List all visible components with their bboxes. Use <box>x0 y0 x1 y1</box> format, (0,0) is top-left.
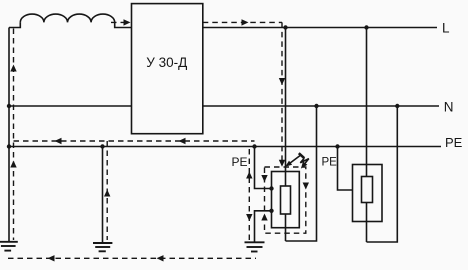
arrow down on SPD1 dashed box left edge <box>261 175 267 182</box>
wire L line right segment <box>203 27 437 29</box>
varistor R2 (SPD2) <box>362 177 373 203</box>
node PE middle ground junction <box>100 144 104 148</box>
wire N line left segment <box>9 105 132 107</box>
svg-text:PE: PE <box>232 155 248 169</box>
node N SPD2 junction <box>395 104 399 108</box>
arrow down into SPD1 dashed box <box>279 160 285 167</box>
wire left dashed return vertical <box>13 29 15 241</box>
svg-text:PE: PE <box>322 156 338 168</box>
SPD1 dashed boundary box <box>265 167 306 233</box>
arrow into U30-D (right) <box>124 19 131 25</box>
wire PE stub to SPD2 <box>338 147 353 191</box>
arrowheads <box>10 19 309 261</box>
node SPD1 upper terminal <box>269 186 273 190</box>
wire SPD1 drop from L <box>285 28 287 187</box>
wire dashed return horizontal <box>14 140 255 142</box>
inductor L1 <box>20 14 131 27</box>
wire dashed PE drop at SPD1 <box>248 149 250 242</box>
lightning bolt 1 shaft <box>287 155 301 165</box>
wire middle ground drop <box>102 147 104 243</box>
node L SPD1 junction <box>283 25 287 29</box>
wire PE stub to SPD1 upper terminal <box>255 147 272 189</box>
node PE SPD2 junction <box>335 144 339 148</box>
arrow up on SPD1 dashed box left edge <box>261 214 267 221</box>
svg-text:У 30-Д: У 30-Д <box>146 55 187 70</box>
lightning bolt 2 zigzag middle strokes <box>300 158 309 163</box>
wire SPD1 lower terminal to earth <box>255 211 272 242</box>
arrow up on left dashed (upper) <box>10 65 16 72</box>
svg-text:L: L <box>442 20 450 35</box>
arrow up on PE drop dashed <box>246 172 252 179</box>
arrow up on left dashed (lower) <box>10 161 16 168</box>
arrow down mid drop SPD1 <box>279 78 285 85</box>
SPD2 enclosure box <box>353 165 383 222</box>
arrow down on SPD1 dashed box right edge <box>303 183 309 190</box>
varistor R1 (SPD1) <box>281 186 291 214</box>
node SPD1 lower terminal <box>269 209 273 213</box>
svg-text:N: N <box>444 99 454 114</box>
arrow up on middle dashed <box>104 190 110 197</box>
wire SPD1 bottom link to N <box>286 106 317 241</box>
wire PE line <box>9 146 441 148</box>
wire SPD1 resistor bottom lead <box>285 214 287 241</box>
arrow left on bottom dashed (first) <box>48 255 55 261</box>
wire middle dashed drop <box>106 141 108 240</box>
lightning bolt 1 arrowhead <box>285 161 292 167</box>
wire dashed path U30-D output to SPD1 <box>203 21 282 23</box>
node N SPD1 junction <box>314 104 318 108</box>
node L SPD2 junction <box>364 25 368 29</box>
node PE SPD1 junction <box>252 144 256 148</box>
wire dashed drop into SPD1 <box>281 22 283 161</box>
ground G1 (left) <box>0 242 18 251</box>
wire dashed arrow into U30-D input <box>111 21 124 23</box>
device U30-D box <box>132 4 203 134</box>
node L-bus junction <box>7 104 11 108</box>
SPD1 enclosure box <box>272 172 300 228</box>
wire N line right segment <box>203 105 439 107</box>
arrow left on return dashed (second) <box>179 138 186 144</box>
arrow left on return dashed (first) <box>55 138 62 144</box>
wire left vertical bus <box>8 28 10 242</box>
dashed surge-current path group <box>8 22 306 258</box>
ground G2 (middle) <box>93 243 112 251</box>
lightning bolt 2 arrowhead <box>301 161 308 168</box>
lightning surge arrows at SPD1 <box>287 153 309 165</box>
ground G3 (SPD1 earth) <box>245 242 265 251</box>
wire SPD2 resistor bottom lead <box>366 203 368 243</box>
node PE-bus junction <box>7 144 11 148</box>
wire L line left segment <box>9 22 20 27</box>
arrow down on PE drop dashed <box>246 214 252 221</box>
lightning bolt 2 zigzag upper stroke <box>299 153 305 158</box>
wire SPD2 bottom link to N <box>367 106 398 242</box>
arrow on top dashed path (right) <box>242 19 249 25</box>
wire bottom dashed earth return <box>8 257 256 259</box>
wire SPD2 drop from L <box>366 28 368 177</box>
arrow left on bottom dashed (second) <box>157 255 164 261</box>
svg-text:PE: PE <box>445 135 463 150</box>
